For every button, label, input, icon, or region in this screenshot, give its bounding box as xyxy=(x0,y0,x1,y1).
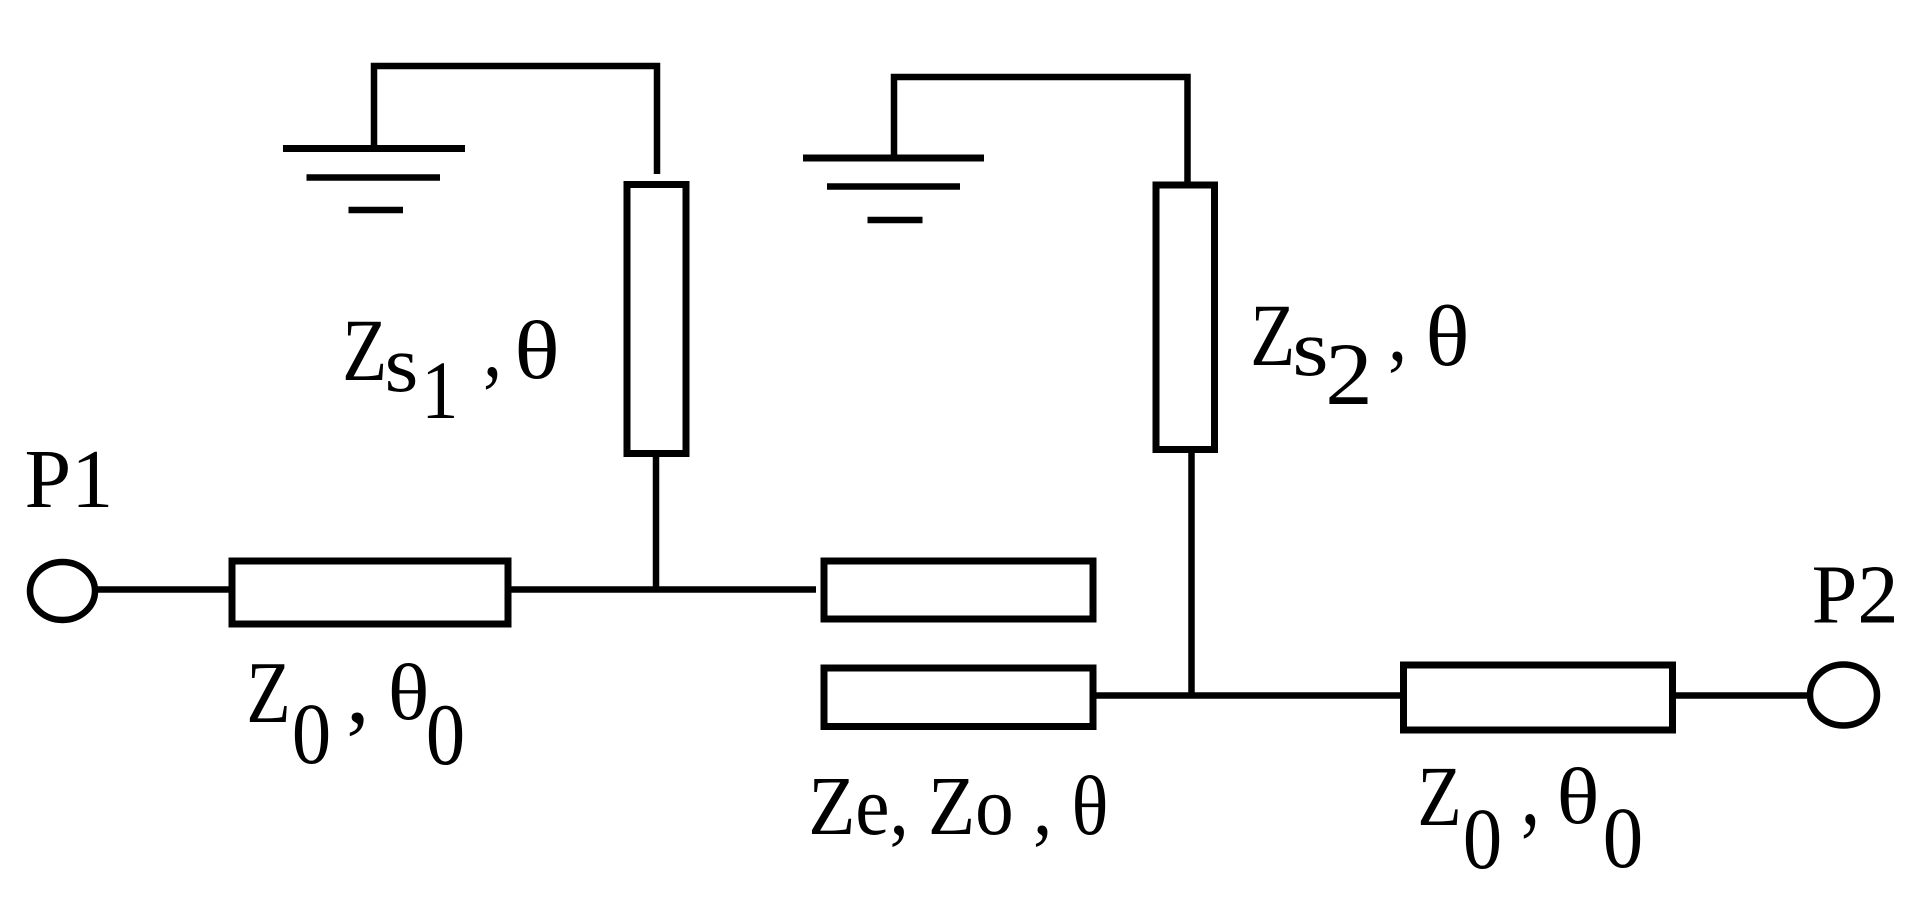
svg-text:s: s xyxy=(385,320,419,410)
svg-text:Z: Z xyxy=(1250,285,1295,384)
svg-text:2: 2 xyxy=(1325,325,1372,424)
svg-text:θ: θ xyxy=(1557,754,1600,841)
svg-text:,: , xyxy=(346,640,369,741)
svg-text:0: 0 xyxy=(1463,790,1502,887)
svg-text:Ze, Zo , θ: Ze, Zo , θ xyxy=(808,760,1108,853)
svg-text:θ: θ xyxy=(1425,288,1469,384)
svg-text:Z: Z xyxy=(342,300,387,399)
svg-text:0: 0 xyxy=(426,687,465,784)
svg-text:0: 0 xyxy=(292,685,331,782)
svg-text:Z: Z xyxy=(246,645,290,742)
svg-text:Z: Z xyxy=(1417,749,1461,844)
svg-text:s: s xyxy=(1292,303,1328,393)
svg-text:,: , xyxy=(1521,739,1540,845)
svg-text:1: 1 xyxy=(421,345,458,437)
svg-text:P2: P2 xyxy=(1812,548,1899,641)
svg-text:θ: θ xyxy=(514,305,559,396)
svg-text:,: , xyxy=(483,298,502,395)
svg-text:P1: P1 xyxy=(25,433,114,526)
svg-text:0: 0 xyxy=(1603,790,1643,886)
svg-text:θ: θ xyxy=(388,649,430,737)
svg-text:,: , xyxy=(1388,286,1407,379)
